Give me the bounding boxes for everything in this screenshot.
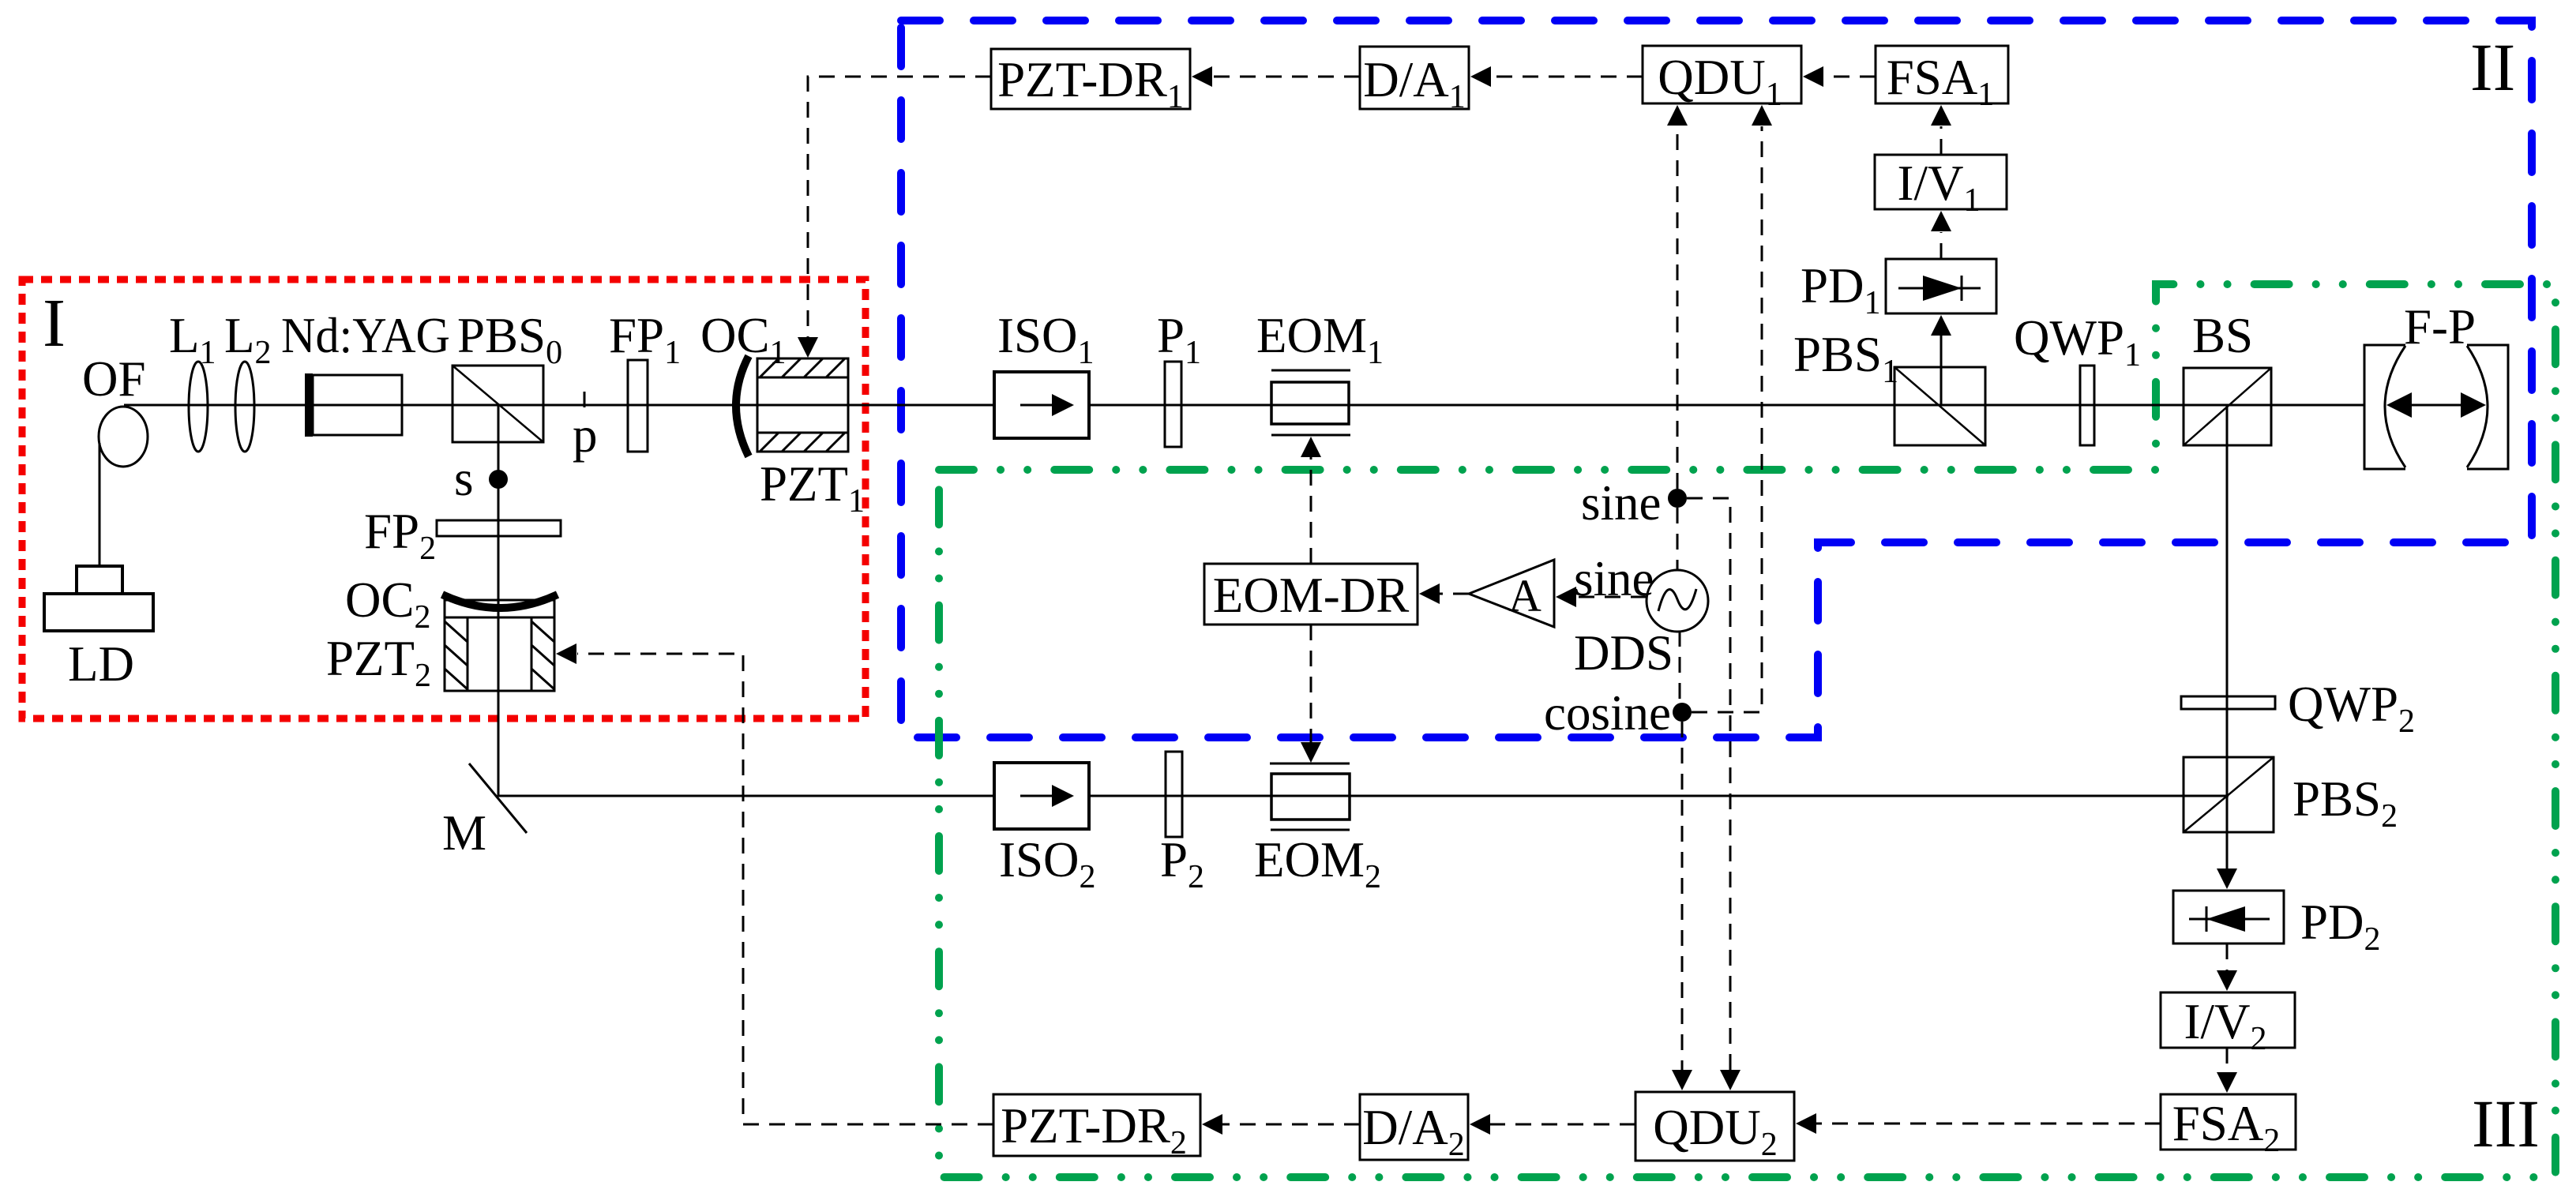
filter plate FP1 bbox=[609, 308, 681, 452]
output coupler OC1 bbox=[700, 308, 787, 456]
arrow into I/V2 from PD2 (down) bbox=[2217, 970, 2237, 991]
svg-text:DDS: DDS bbox=[1574, 625, 1673, 681]
driver box PZT-DR1 bbox=[991, 49, 1190, 115]
svg-text:EOM2: EOM2 bbox=[1254, 832, 1381, 895]
wire: DDS to amplifier A (dashed) bbox=[1576, 596, 1647, 598]
wire: PD2 to I/V2 (dashed) bbox=[2226, 944, 2229, 974]
quadrature demodulation unit QDU2 bbox=[1635, 1092, 1794, 1163]
piezo actuator PZT2 bbox=[326, 600, 554, 694]
svg-text:PZT-DR1: PZT-DR1 bbox=[997, 52, 1184, 115]
wire: D/A2 to PZT-DR2 (dashed) bbox=[1222, 1124, 1360, 1126]
converter box D/A2 bbox=[1360, 1094, 1468, 1163]
svg-text:I: I bbox=[43, 284, 66, 361]
wire: feedback PZT-DR1 to PZT1 (dashed) bbox=[808, 77, 991, 337]
polarizing beam splitter PBS2 bbox=[2184, 757, 2398, 835]
svg-text:QWP2: QWP2 bbox=[2288, 677, 2415, 740]
wire: PBS1 to PD1 (solid) bbox=[1940, 336, 1943, 405]
region II boundary (blue dashed box) bbox=[901, 21, 2532, 737]
frequency servo amplifier FSA2 bbox=[2161, 1094, 2296, 1159]
wire: cosine node to QDU1 via right branch (dashed) bbox=[1692, 126, 1762, 712]
wire: D/A1 to PZT-DR1 (dashed) bbox=[1212, 76, 1360, 78]
wire: lower beam M to PBS2 bbox=[498, 795, 2229, 797]
arrow into FSA1 from I/V1 (up) bbox=[1931, 105, 1951, 126]
arrow into PD2 from PBS2 (down) bbox=[2217, 868, 2237, 889]
arrow into FSA2 from I/V2 (down) bbox=[2217, 1072, 2237, 1093]
wire: FSA2 to QDU2 (dashed) bbox=[1816, 1123, 2161, 1125]
polarizing beam splitter PBS1 bbox=[1793, 327, 1985, 445]
electro-optic modulator EOM1 bbox=[1256, 308, 1384, 435]
svg-text:F-P: F-P bbox=[2404, 299, 2476, 355]
arrow into amplifier A (left) bbox=[1556, 587, 1576, 607]
wire: main upper beam bbox=[124, 404, 2364, 407]
arrow into PZT1 (down) bbox=[798, 337, 818, 358]
arrow into EOM1 (up) bbox=[1301, 437, 1321, 457]
polarizer P2 bbox=[1160, 752, 1204, 895]
polarizing beam splitter PBS0 bbox=[452, 308, 562, 442]
wire: EOM-DR to EOM1 (dashed) bbox=[1310, 457, 1312, 564]
wire: sine node to QDU1 (dashed) bbox=[1677, 126, 1679, 489]
svg-text:BS: BS bbox=[2192, 308, 2253, 363]
lens L1 bbox=[169, 308, 216, 452]
wire: I/V1 to FSA1 (dashed) bbox=[1940, 126, 1943, 155]
converter box D/A1 bbox=[1360, 47, 1469, 115]
arrow into I/V1 from PD1 (up) bbox=[1931, 211, 1951, 231]
laser diode LD bbox=[44, 443, 153, 692]
wire: sine node to DDS (dashed) bbox=[1677, 508, 1679, 570]
svg-text:QDU1: QDU1 bbox=[1658, 50, 1782, 113]
wire: vertical beam PBS0 to M bbox=[498, 405, 500, 797]
DDS oscillator bbox=[1574, 570, 1708, 681]
arrow into QDU2 from FSA2 (left) bbox=[1796, 1113, 1816, 1134]
driver box PZT-DR2 bbox=[993, 1094, 1200, 1161]
wire: FSA1 to QDU1 (dashed) bbox=[1823, 76, 1876, 78]
svg-text:M: M bbox=[442, 805, 486, 861]
optical fiber OF bbox=[82, 351, 148, 467]
quarter wave plate QWP2 bbox=[2181, 677, 2415, 740]
current-voltage converter I/V2 bbox=[2161, 992, 2295, 1057]
node sine (junction dot) bbox=[1581, 475, 1687, 531]
svg-text:Nd:YAG: Nd:YAG bbox=[281, 308, 450, 363]
current-voltage converter I/V1 bbox=[1875, 155, 2007, 219]
wire: sine node to QDU2 via right branch (dashed) bbox=[1687, 498, 1730, 1070]
EOM driver box EOM-DR bbox=[1204, 564, 1418, 625]
svg-text:OF: OF bbox=[82, 351, 146, 407]
svg-text:III: III bbox=[2472, 1086, 2540, 1161]
svg-text:EOM1: EOM1 bbox=[1256, 308, 1384, 371]
photodetector PD1 bbox=[1801, 258, 1996, 321]
arrow into QDU2 left input (down) bbox=[1672, 1070, 1692, 1090]
wire: cosine node to QDU2 (dashed) bbox=[1681, 722, 1684, 1070]
wire: DDS to cosine node (dashed) bbox=[1679, 631, 1681, 703]
svg-text:LD: LD bbox=[68, 636, 134, 692]
arrow into PZT-DR2 (left) bbox=[1202, 1114, 1222, 1135]
svg-text:A: A bbox=[1508, 570, 1541, 621]
Fabry-Perot cavity F-P bbox=[2364, 299, 2508, 469]
optical isolator ISO1 bbox=[994, 308, 1095, 438]
photodetector PD2 bbox=[2173, 891, 2381, 958]
svg-text:sine: sine bbox=[1581, 475, 1661, 531]
arrow into QDU1 from FSA1 (left) bbox=[1803, 66, 1823, 87]
svg-text:cosine: cosine bbox=[1544, 685, 1671, 741]
wire: QDU1 to D/A1 (dashed) bbox=[1491, 76, 1643, 78]
wire: QDU2 to D/A2 (dashed) bbox=[1490, 1124, 1635, 1126]
wire: EOM-DR to EOM2 (dashed) bbox=[1310, 625, 1312, 742]
amplifier A bbox=[1469, 560, 1554, 627]
optical isolator ISO2 bbox=[994, 763, 1096, 895]
Nd:YAG gain crystal bbox=[281, 308, 450, 437]
arrow into QDU2 right input (down) bbox=[1720, 1070, 1740, 1090]
electro-optic modulator EOM2 bbox=[1254, 763, 1381, 895]
wire: PD1 to I/V1 (dashed) bbox=[1940, 232, 1943, 259]
quadrature demodulation unit QDU1 bbox=[1643, 46, 1801, 113]
arrow into D/A1 (left) bbox=[1470, 66, 1491, 87]
frequency servo amplifier FSA1 bbox=[1876, 46, 2008, 113]
lens L2 bbox=[224, 308, 271, 452]
arrow into EOM2 (down) bbox=[1301, 742, 1321, 763]
polarizer P1 bbox=[1157, 308, 1201, 447]
arrow into PD1 from PBS1 (up) bbox=[1931, 315, 1951, 336]
quarter wave plate QWP1 bbox=[2014, 310, 2141, 445]
arrow into QDU1 right input (up) bbox=[1752, 105, 1772, 126]
svg-text:PZT-DR2: PZT-DR2 bbox=[1001, 1098, 1187, 1161]
node cosine (junction dot) bbox=[1544, 685, 1692, 741]
svg-text:QWP1: QWP1 bbox=[2014, 310, 2141, 373]
region III boundary (green dash-dot-dot box) bbox=[939, 284, 2555, 1177]
node p (p-polarized beam tick) bbox=[573, 392, 598, 463]
arrow into PZT-DR1 (left) bbox=[1192, 66, 1212, 87]
wire: vertical beam BS to PD2 bbox=[2226, 406, 2229, 872]
wire: I/V2 to FSA2 (dashed) bbox=[2226, 1048, 2229, 1076]
node s (s-polarized beam dot) bbox=[454, 451, 508, 506]
region I boundary (red dotted box) bbox=[22, 279, 866, 718]
svg-text:QDU2: QDU2 bbox=[1653, 1100, 1778, 1163]
svg-text:EOM-DR: EOM-DR bbox=[1213, 568, 1410, 623]
svg-text:p: p bbox=[573, 407, 598, 463]
filter plate FP2 bbox=[364, 504, 561, 567]
arrow into PZT2 (left) bbox=[556, 643, 576, 664]
piezo actuator PZT1 bbox=[757, 358, 865, 520]
arrow into EOM-DR (left) bbox=[1419, 583, 1440, 604]
arrow into QDU1 left input (up) bbox=[1667, 105, 1688, 126]
output coupler OC2 bbox=[345, 572, 558, 636]
arrow into D/A2 (left) bbox=[1470, 1114, 1490, 1135]
svg-text:s: s bbox=[454, 451, 474, 506]
wire: feedback PZT-DR2 to PZT2 (dashed) bbox=[577, 654, 993, 1124]
wire: amplifier A to EOM-DR (dashed) bbox=[1440, 593, 1469, 595]
svg-text:II: II bbox=[2470, 29, 2515, 105]
mirror M bbox=[442, 763, 527, 861]
beam splitter BS bbox=[2184, 308, 2271, 445]
